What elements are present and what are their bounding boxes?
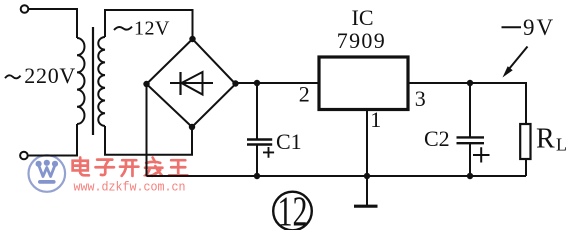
wire RL bottom to bus — [525, 159, 527, 176]
label ~12V tilde — [114, 27, 132, 30]
capacitor C1 — [247, 83, 272, 176]
wire top-left to primary top — [28, 9, 77, 38]
watermark logo circle — [29, 155, 66, 192]
node bridge bottom — [189, 124, 195, 130]
node bridge right — [232, 80, 238, 86]
watermark text zi (子) — [96, 160, 114, 175]
label C2 plus — [473, 147, 490, 162]
node C1 bottom — [254, 173, 260, 179]
node bridge left — [143, 81, 149, 87]
resistor RL — [520, 124, 530, 159]
svg-text:220V: 220V — [24, 63, 76, 88]
terminal AC input bottom — [20, 152, 28, 160]
node C1 top — [254, 80, 260, 86]
wire secondary bottom to bridge bottom — [105, 126, 192, 155]
svg-text:12V: 12V — [134, 17, 170, 39]
capacitor C2 — [457, 83, 485, 176]
figure number 12 circle — [273, 192, 312, 231]
node bridge top — [189, 36, 195, 42]
watermark text kai (开) — [120, 160, 138, 176]
wire secondary top to bridge top — [105, 10, 193, 39]
watermark text fa (发) — [145, 158, 162, 176]
label ~220V tilde — [5, 75, 21, 78]
wire bottom bus — [147, 175, 527, 177]
wire IC pin3 to RL top — [408, 83, 526, 124]
svg-text:3: 3 — [415, 86, 426, 111]
node C2 bottom — [467, 173, 473, 179]
transformer primary winding — [77, 38, 85, 124]
bridge diode cathode bar — [179, 72, 181, 95]
svg-text:C2: C2 — [424, 126, 450, 151]
wire bridge left vertex down to bottom bus — [146, 84, 148, 176]
bridge diode triangle — [182, 72, 203, 95]
svg-text:2: 2 — [299, 82, 310, 107]
watermark logo W mark — [36, 160, 59, 184]
svg-text:C1: C1 — [276, 129, 302, 154]
watermark text wang (王) — [169, 160, 187, 175]
svg-text:12: 12 — [278, 190, 308, 231]
ground — [354, 205, 378, 208]
wire IC pin1 down to ground — [366, 110, 368, 207]
arrow output pointer — [507, 47, 528, 73]
svg-text:IC: IC — [352, 5, 374, 30]
bridge diode symbol line — [170, 82, 213, 84]
arrowhead — [503, 66, 513, 77]
watermark text dian (电) — [73, 158, 89, 176]
label C1 plus — [263, 147, 274, 158]
node C2 top — [467, 80, 473, 86]
label -9V minus — [502, 26, 522, 28]
svg-text:9V: 9V — [523, 15, 555, 40]
wire primary bottom to terminal — [28, 124, 77, 156]
bridge rectifier diamond — [147, 39, 236, 127]
terminal AC input top — [21, 5, 29, 13]
IC U1 7909 box — [319, 57, 408, 110]
svg-text:L: L — [556, 135, 567, 155]
svg-text:1: 1 — [370, 107, 381, 132]
svg-text:7909: 7909 — [337, 28, 386, 53]
wire bridge right vertex to IC pin2 — [236, 82, 320, 84]
transformer secondary winding — [98, 37, 105, 126]
svg-text:R: R — [536, 124, 555, 155]
svg-text:www.dzkfw.com.cn: www.dzkfw.com.cn — [74, 181, 186, 195]
transformer core — [92, 27, 94, 135]
node pin1 bus junction — [364, 173, 370, 179]
